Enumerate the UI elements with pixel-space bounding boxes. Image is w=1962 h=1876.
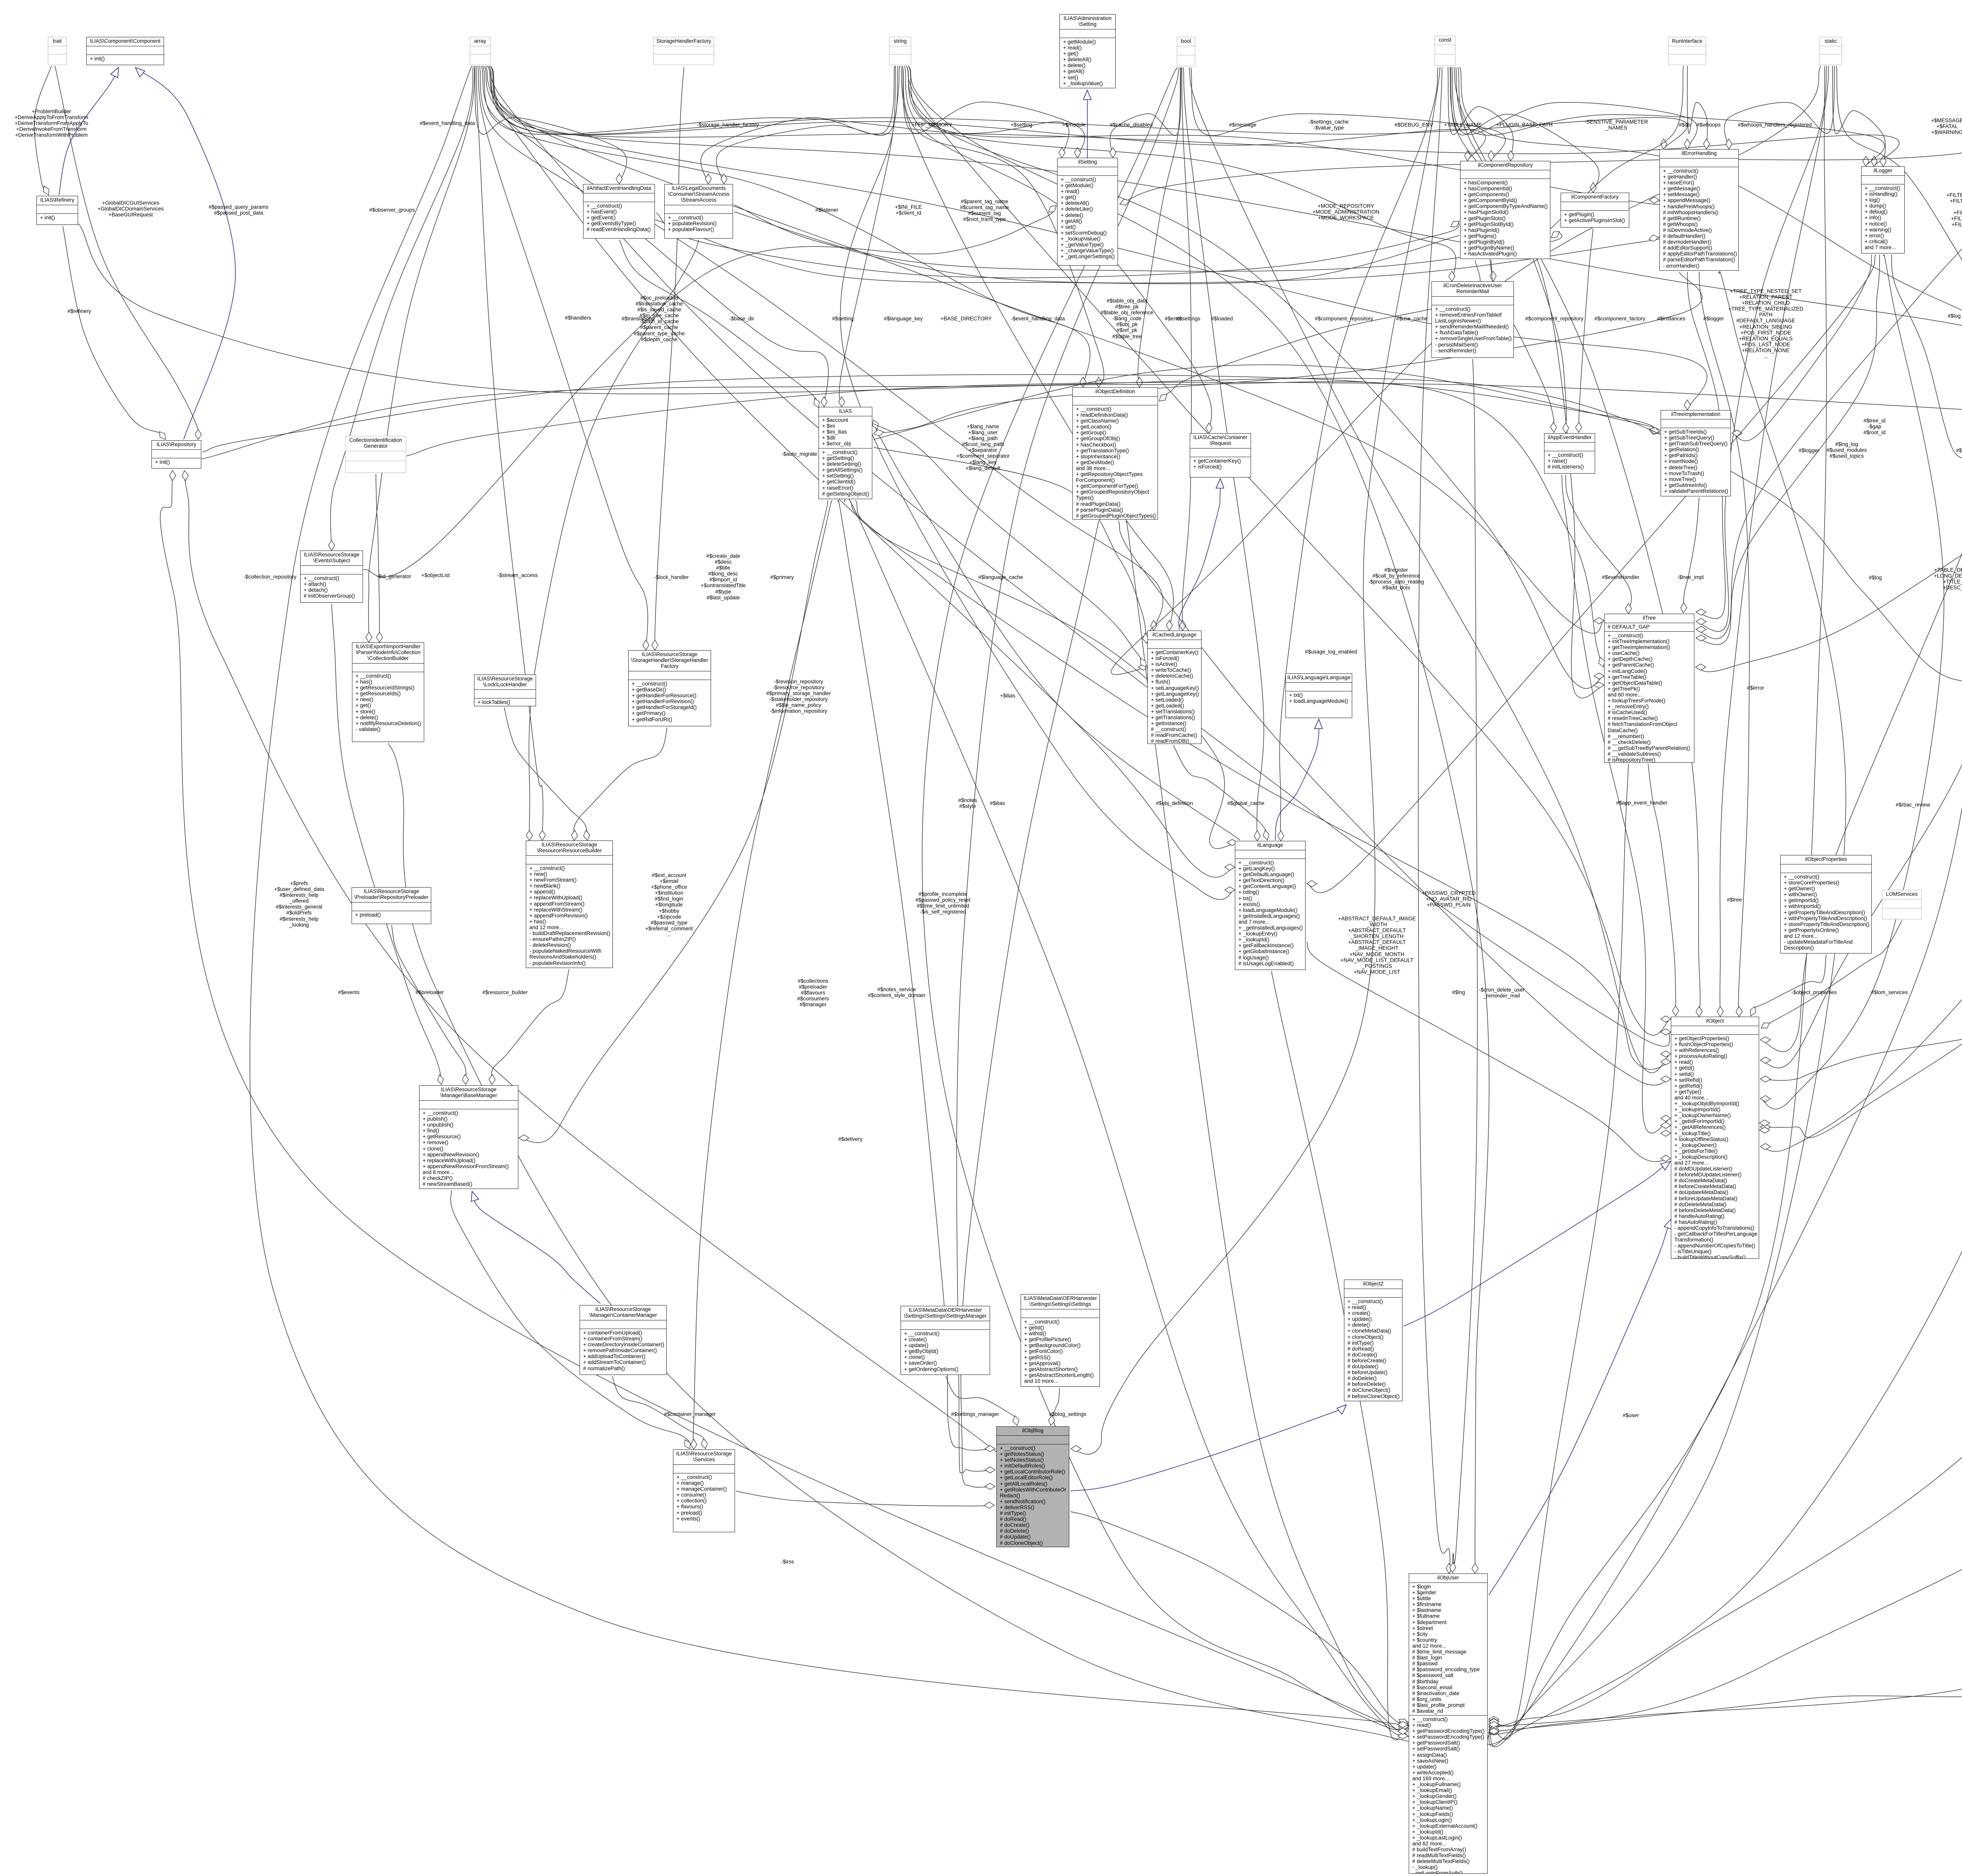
label $base_dir (729, 315, 754, 321)
label #$log (1947, 313, 1960, 319)
label #$translations (622, 315, 655, 321)
class const (1435, 36, 1455, 66)
class admsetting (1059, 14, 1116, 88)
class artifact (583, 184, 655, 239)
label #$db (1679, 122, 1690, 128)
label #$notes_service (868, 986, 925, 998)
label +BASE_DIRECTORY (941, 315, 992, 321)
label #$cache_disabled (1110, 122, 1153, 128)
label +ABSTRACT_DEFAULT_IMAGE (1338, 916, 1416, 975)
label $object_properties (1791, 989, 1837, 995)
class resb (526, 840, 613, 968)
class trait (48, 37, 67, 65)
class ilias (819, 407, 872, 499)
label $stream_access (498, 572, 538, 578)
class language (1286, 673, 1352, 718)
class preloader (352, 887, 431, 924)
label #$lom_services (1871, 989, 1908, 995)
label #$passed_query_params (209, 204, 268, 216)
label #$eventHandler (1602, 574, 1639, 580)
class static (1820, 37, 1842, 65)
label #$profile_incomplete (915, 891, 970, 915)
class stream (664, 184, 733, 239)
class illang (1235, 841, 1306, 970)
label +PLUGIN_BASE_PATH (1496, 122, 1552, 128)
class compfact (1561, 193, 1629, 228)
label +$INI_FILE (895, 204, 922, 216)
class illogger (1861, 166, 1905, 253)
label $id_generator (377, 573, 411, 579)
label #$notes (958, 797, 977, 809)
label +$module (1062, 122, 1086, 128)
label #$usage_log_enabled (1305, 649, 1357, 655)
label $irss (781, 1559, 794, 1564)
label #$oc_preloaded (634, 295, 685, 343)
class ilerror (1659, 149, 1739, 271)
label +TABLE_NAME (1444, 122, 1482, 128)
label #$delivery (838, 1136, 862, 1142)
label +$setting (1010, 122, 1032, 128)
label #$component_repository (1525, 315, 1584, 321)
label +ProblemBuilder (15, 108, 88, 138)
label #$message (1229, 122, 1256, 128)
class objprops (1780, 855, 1872, 953)
label #$ilias (990, 800, 1005, 806)
class collb (352, 642, 424, 742)
label #$log (1869, 574, 1882, 580)
label #$parent_tag_name (960, 199, 1009, 222)
label #$collections (797, 978, 829, 1007)
label #$component_repository (1315, 315, 1373, 321)
label +$objectList (421, 572, 450, 578)
label #$instances (1657, 315, 1685, 321)
label $storage_handler_factory (697, 122, 759, 128)
label #$table_obj_data (1101, 298, 1153, 339)
label +$ilias (1000, 693, 1016, 698)
label #$tree_id (1864, 417, 1885, 435)
label #$container_manager (664, 1411, 715, 1417)
class ilsetting (1057, 158, 1118, 266)
class cachereq (1190, 433, 1251, 478)
class ilobject (1671, 1017, 1759, 1259)
label #$setting (832, 315, 854, 321)
class objdef (1072, 387, 1158, 520)
label $auto_migrate (782, 451, 817, 457)
label #$event_handling_data (420, 120, 475, 126)
label #$language_cache (978, 574, 1023, 580)
label +PASSWD_CRYPTED (1422, 890, 1475, 908)
class comprepo (1460, 161, 1550, 259)
label #$create_date (701, 553, 746, 601)
label +MODE_REPOSITORY (1313, 203, 1379, 221)
label $cron_delete_user (1479, 987, 1524, 999)
class services (673, 1449, 735, 1532)
class ilobject2 (1344, 1280, 1402, 1401)
class string (889, 37, 911, 65)
class repository (151, 440, 201, 469)
label #$resource_builder (482, 989, 528, 995)
class setmgr (901, 1306, 990, 1375)
label $event_handling_data (1011, 315, 1065, 321)
label #$listener (815, 207, 839, 213)
label #$primary (770, 574, 794, 580)
class ilobjblog (996, 1426, 1069, 1547)
label #$logger (1799, 447, 1820, 453)
label +PHP_MEMORY (912, 122, 952, 128)
class subject (300, 551, 363, 603)
label +$MESSAGE (1931, 117, 1962, 135)
class bool (1177, 37, 1195, 66)
label $collection_repository (243, 574, 296, 580)
class basemgr (419, 1085, 518, 1189)
label #$use_cache (1396, 315, 1428, 321)
label #$lng (1452, 989, 1465, 995)
label #$app_event_handler (1616, 800, 1668, 806)
label #$DEBUG_ENV (1395, 122, 1433, 128)
label #$ext_account (645, 872, 693, 937)
label #$lng_log (1827, 441, 1867, 459)
class lom (1882, 890, 1922, 919)
class iltree (1604, 614, 1694, 763)
class component (86, 37, 164, 65)
class ilobjuser (1409, 1573, 1488, 1874)
label #$error (1747, 685, 1764, 691)
class shfi (628, 650, 711, 726)
class refinery (36, 196, 78, 225)
label #$refinery (67, 308, 91, 314)
label SENSTIVE_PARAMETER (1585, 119, 1648, 131)
label #$rbac_review (1896, 802, 1930, 808)
class contmgr (580, 1305, 667, 1375)
label +TABLE_OBJECT_DATA (1934, 567, 1962, 591)
class ilcron (1431, 281, 1514, 358)
class treeimpl (1661, 410, 1731, 496)
class cachedlang (1147, 631, 1202, 744)
label +$prefs (274, 881, 324, 928)
label +TREE_TYPE_NESTED_SET (1728, 288, 1803, 359)
label #$error (1165, 315, 1182, 321)
label #$handlers (565, 315, 591, 321)
class runif (1668, 37, 1706, 65)
label #$language_key (884, 315, 923, 321)
label #$settings_manager (951, 1411, 999, 1417)
class shf (653, 37, 714, 65)
label +GlobalDICGUIServices (98, 200, 164, 217)
class array (470, 37, 491, 65)
class cig (345, 436, 406, 473)
label $revision_repository (766, 679, 831, 715)
label #$blog_settings (1049, 1411, 1087, 1417)
label #$register (1368, 567, 1424, 591)
label $tree_impl (1677, 574, 1704, 580)
class lockh (474, 675, 536, 706)
label +$lang_name (956, 424, 1009, 471)
label #$logger (1703, 315, 1724, 321)
label #$component_factory (1594, 315, 1645, 321)
label #$tree (1727, 897, 1742, 902)
label #$events (338, 989, 360, 995)
label #$settings (1176, 315, 1200, 321)
label $lock_handler (654, 574, 689, 580)
label #$preloader (416, 989, 444, 995)
label #$whoops_handlers_registered (1738, 122, 1812, 128)
class appevent (1544, 433, 1595, 474)
label #$obj_definition (1156, 800, 1193, 806)
class settings (1021, 1294, 1100, 1387)
label #$whoops (1696, 122, 1721, 128)
label +FILTER_NOT_INTERNAL (1946, 192, 1962, 228)
label #$logger (1956, 447, 1962, 453)
label #$global_cache (1227, 800, 1265, 806)
label #$user (1623, 1412, 1639, 1418)
label $settings_cache (1309, 119, 1349, 131)
label #$observer_groups (369, 207, 415, 213)
label #$loaded (1211, 315, 1233, 321)
